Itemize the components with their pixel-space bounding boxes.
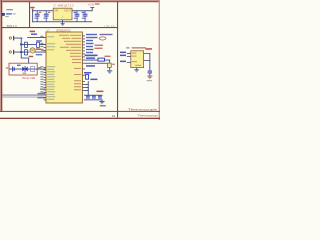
wire top rail left [32,9,53,12]
svg-text:+3.3V: +3.3V [88,4,95,7]
wire input vertical [20,38,23,59]
wire T- horizontal [14,51,30,54]
label mid-left [40,88,45,89]
mcu inner pin names left [47,36,55,99]
mcu outer pin labels left [40,36,43,93]
ground symbol right section [147,76,152,79]
wire bottom rail [32,20,92,23]
capacitor C7 [86,96,90,99]
usb conn left labels [120,52,126,63]
wire decoupling bottom rail [84,98,103,101]
usb conn left pin wires [127,53,131,63]
top-left block: label text [6,9,13,10]
top-left block: net label [6,13,12,14]
top-left block: value text [5,16,9,17]
label above crystal [90,79,97,81]
label D1 inside box [17,65,21,66]
wire T+ horizontal [14,37,23,40]
op-amp internal marks [31,49,34,52]
op-amp U3 [30,48,35,53]
wire through tvs box [9,68,46,71]
ground symbol decoupling [99,99,104,104]
label R value 2 [36,48,41,50]
capacitor C1 [34,11,41,22]
wire osc-out [85,62,110,65]
usb conn U4 designator [126,47,130,48]
mcu right pin stubs [82,36,85,91]
label long net top [85,55,98,57]
wire crystal vertical [108,60,111,71]
label right of opamp [36,54,42,55]
resistor R6 inside box [30,67,34,72]
sheet border right [159,0,160,120]
wire crystal bundle vertical [87,81,90,95]
capacitor C8 [92,96,96,99]
wire regulator gnd stub [61,20,64,22]
mcu outer net labels right [86,34,113,56]
usb conn J2 body [131,51,144,68]
ground symbol under usb conn [134,69,139,72]
label osc-out [86,65,95,67]
power bar +3.3V [90,7,94,8]
wire filter out [35,51,46,54]
sheet border left [0,0,2,112]
top-left block: connector J1 [2,13,5,16]
wire gnd stub under usb conn [135,68,138,70]
wire left vertical [31,10,34,22]
crystal value label [112,64,115,65]
net bubble PA10 [99,37,106,40]
net port T- [9,50,14,55]
capacitor C6 inside box [12,66,15,71]
net port T+ [9,36,14,41]
power label right [146,48,153,50]
wire decoupling top rail [84,94,103,97]
svg-text:Thermocoup: Thermocoup [138,114,159,118]
svg-text:VIN: VIN [54,10,58,13]
usb conn inner pin names [132,53,141,66]
TVS protection box [9,63,37,75]
resistor R4 [98,58,105,61]
wire c5 to mcu [40,43,47,46]
mcu U1 body [46,32,82,103]
divider horizontal under top blocks [2,27,118,28]
wire +3.3V stub [91,8,94,11]
wire osc pins [85,83,89,86]
wire across filters [21,43,36,46]
wire osc-in [85,59,98,62]
wire top rail right [72,9,92,12]
crystal Y1 body [107,63,111,67]
resistor R2 [25,50,28,55]
capacitor C5 [37,42,40,47]
sheet background [0,0,160,120]
value label under TVS [23,73,27,74]
svg-text:BUS 1.0: BUS 1.0 [7,24,17,28]
gnd text right section [147,80,152,81]
capacitor C2 [43,11,50,22]
svg-text:Thermocouple: Thermocouple [128,107,157,111]
wire SWCLK long [2,96,44,99]
title block top line [0,111,160,112]
label under opamp [29,56,34,57]
label swdio [38,93,46,95]
sheet border top [0,0,160,2]
capacitor C3 [74,11,80,22]
resistor R1 [25,42,28,47]
usb conn part name [132,47,147,48]
usb conn right pin wires [144,53,151,61]
wire tvs up [27,58,30,63]
wire cap right vertical [148,53,151,71]
wire stub from +5V flag [31,9,34,11]
svg-text:A4: A4 [112,114,116,118]
label boot0 [84,72,91,74]
power label +3.3V right [96,91,103,93]
TVS D1 [22,66,27,72]
port label left of tvs box [6,67,8,68]
wire r4 to crystal [105,59,111,62]
label swclk [38,97,46,99]
svg-text:AMS1117-3.3: AMS1117-3.3 [58,4,75,8]
net label AIN [31,34,37,35]
svg-text:Temp 120: Temp 120 [22,76,36,80]
gnd text [100,105,106,107]
ground symbol under regulator [61,22,65,26]
mcu left pin stubs [44,37,46,100]
capacitor C9 [98,96,102,99]
capacitor C4 [82,11,88,22]
ground symbol under crystal [107,70,112,73]
capacitor C10 [148,71,152,76]
sheet border bottom [0,118,160,119]
svg-text:VOUT: VOUT [64,10,71,13]
regulator U2 body [53,8,72,20]
power label +3.3V small [30,31,35,33]
svg-text:U?: U? [53,3,57,7]
label R value 1 [36,40,42,42]
svg-text:LOC 1.0: LOC 1.0 [105,24,115,28]
label right of tvs box [38,67,41,68]
divider vertical top-left block [29,2,30,28]
power flag +5V left [30,7,34,8]
mcu inner pin names right top [59,35,81,90]
label osc-in [86,57,95,59]
divider vertical center/right [117,2,118,118]
resistor R5 boot0 [86,74,89,79]
wire SWDIO long [2,94,44,97]
wire to mcu AIN [27,36,46,39]
crystal Y1 label [105,56,111,57]
